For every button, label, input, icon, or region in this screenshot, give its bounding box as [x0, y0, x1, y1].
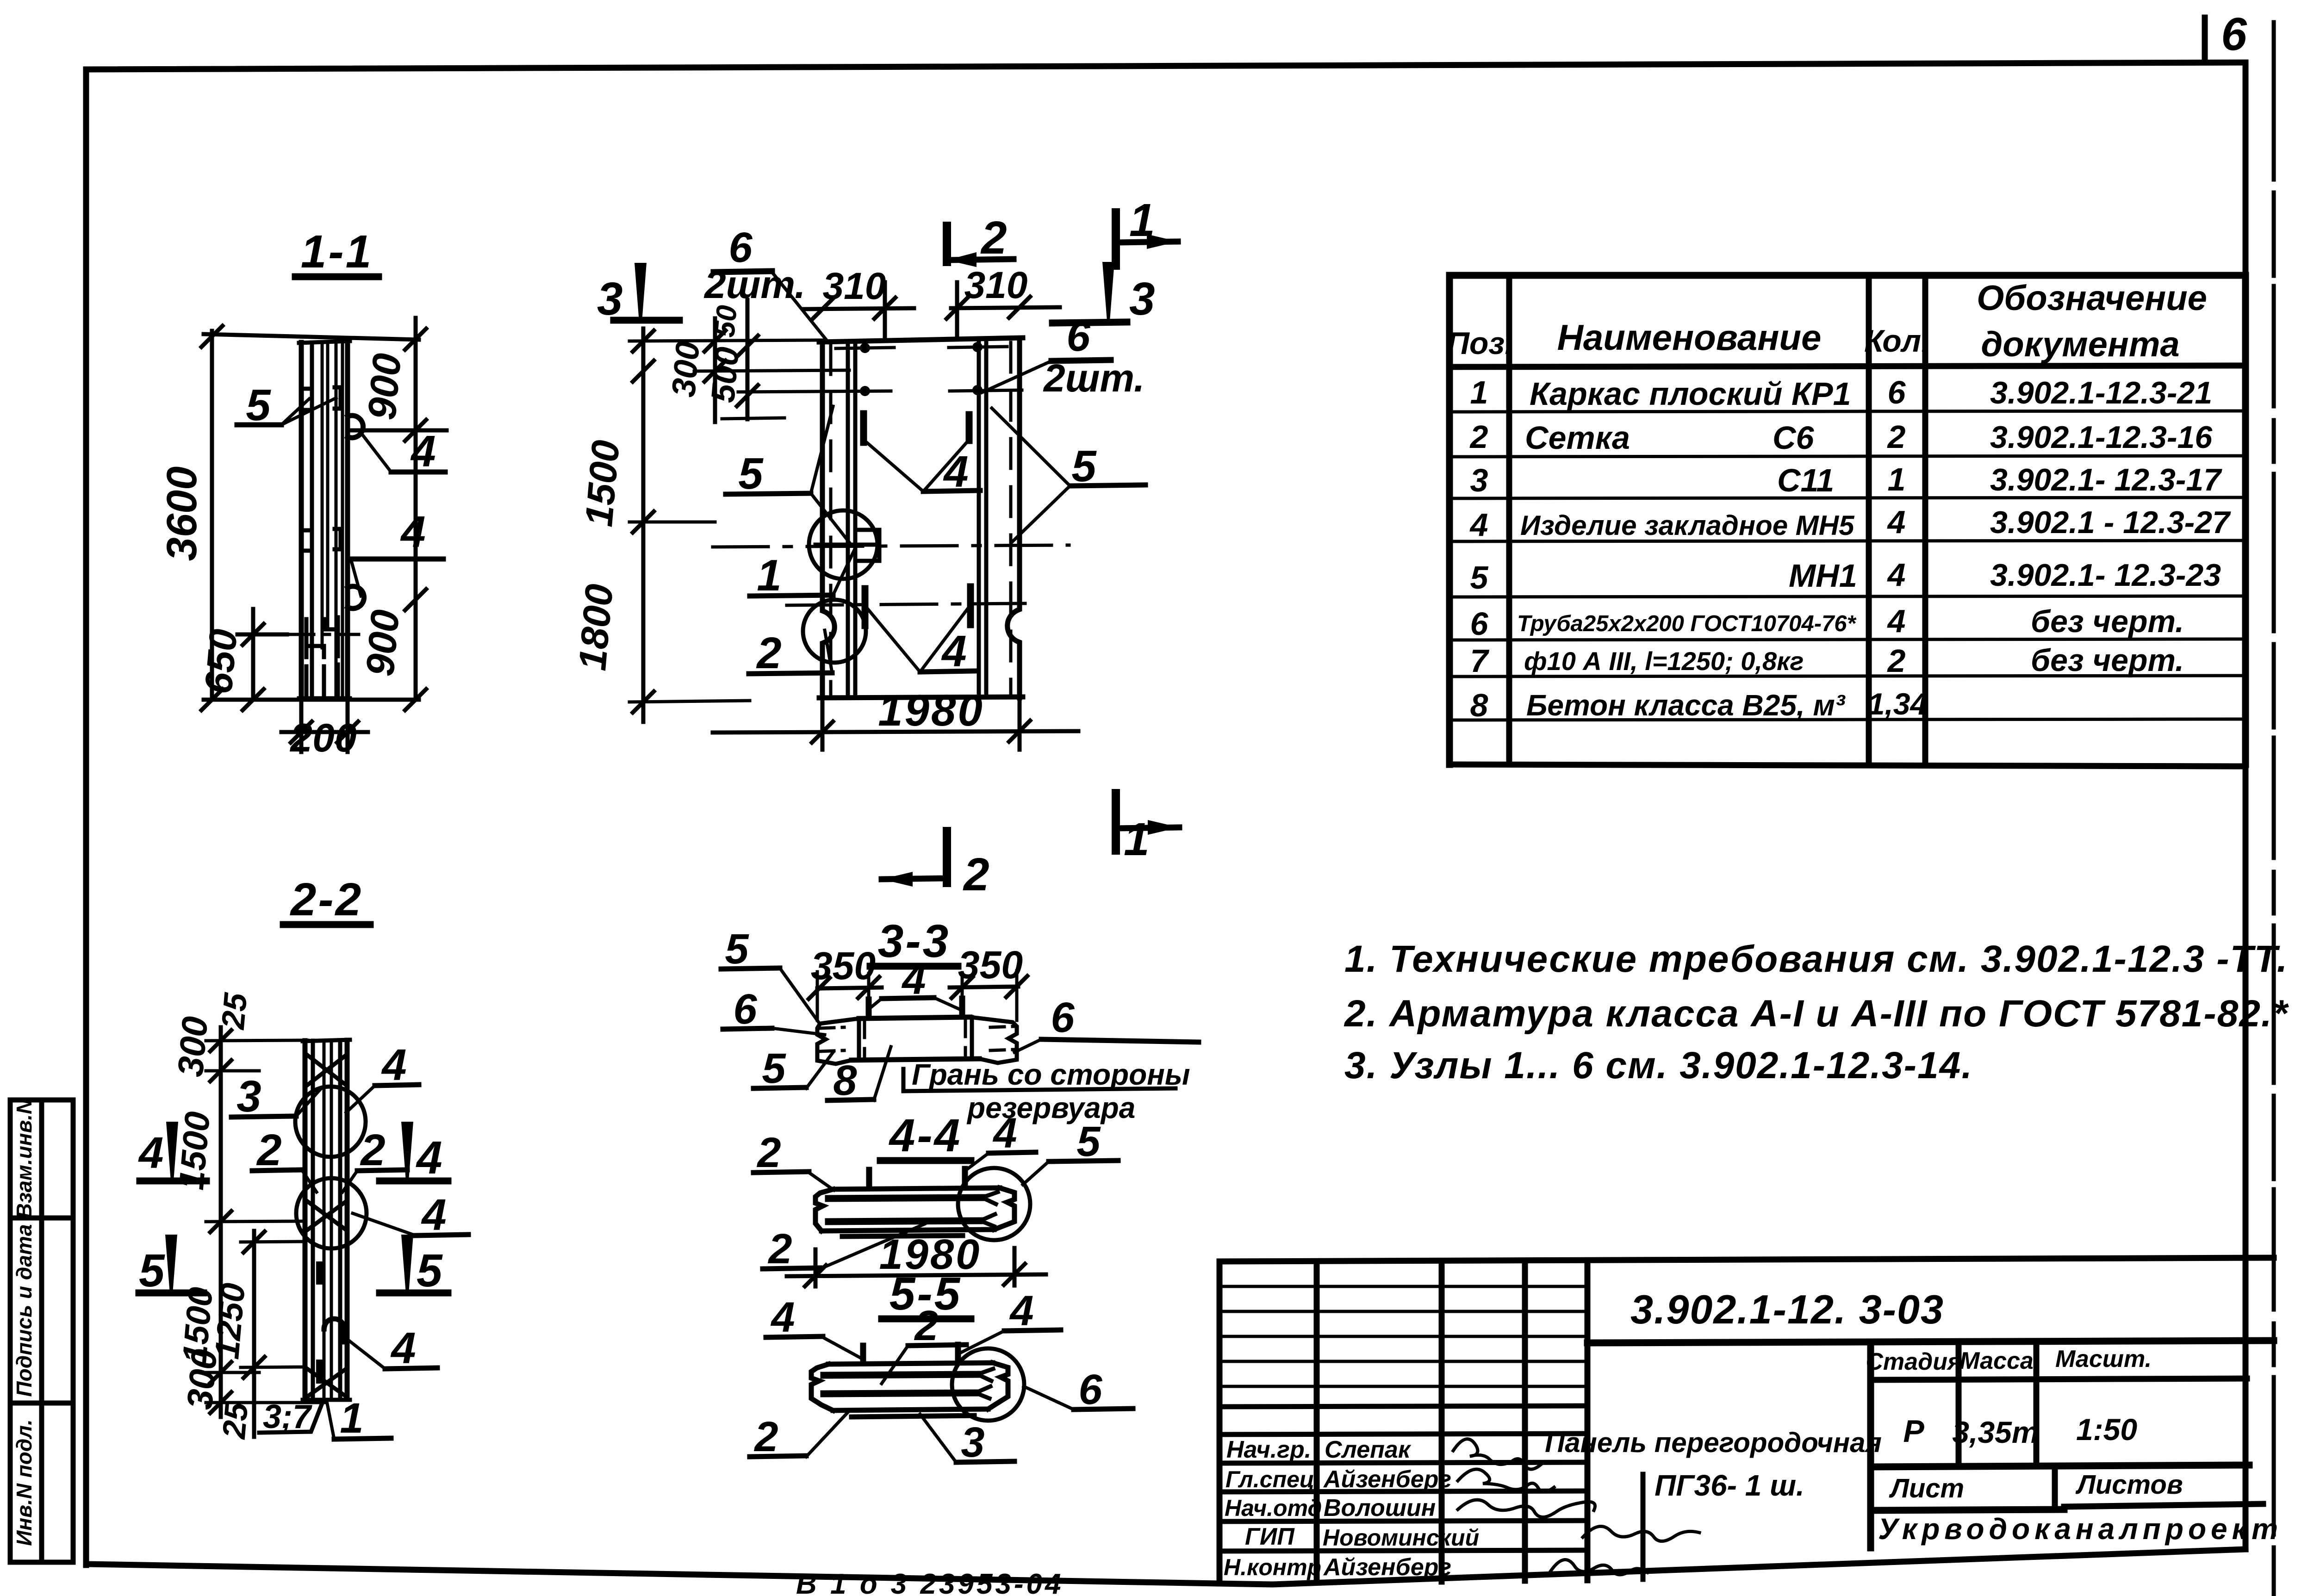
plan view dimension 1980 (bottom)	[713, 686, 1078, 750]
svg-text:Панель перегородочная: Панель перегородочная	[1545, 1427, 1882, 1458]
view 1-1 callout 5	[237, 380, 336, 430]
svg-text:документа: документа	[1981, 325, 2179, 364]
svg-text:4: 4	[421, 1190, 446, 1240]
view 3-3 callout 5 (bottom left)	[753, 1045, 833, 1092]
view 1-1 dimension 3600	[158, 324, 419, 712]
svg-text:4: 4	[416, 1132, 442, 1184]
svg-text:2: 2	[256, 1125, 281, 1175]
svg-text:Подпись и дата: Подпись и дата	[12, 1224, 36, 1397]
table row 2: Сетка С6	[1469, 419, 2213, 456]
svg-text:резервуара: резервуара	[966, 1091, 1135, 1124]
svg-text:1: 1	[757, 551, 781, 600]
title block: Стадия Масса Масшт headers and values	[1866, 1346, 2152, 1375]
view 2-2 node circle lower	[296, 1178, 367, 1248]
svg-text:2: 2	[756, 1129, 781, 1176]
svg-text:2. Арматура класса А-I: 2. Арматура класса А-I и А-III по ГОСТ 5…	[1344, 993, 2289, 1035]
svg-text:без черт.: без черт.	[2031, 604, 2184, 639]
view 4-4 label	[880, 1110, 971, 1161]
view 1-1 callout 4 (top)	[362, 427, 445, 476]
plan view section mark 1 (top right)	[1116, 194, 1178, 266]
svg-text:4: 4	[1009, 1287, 1033, 1335]
view 2-2 callout 2 (left)	[252, 1125, 317, 1192]
svg-text:5: 5	[725, 925, 749, 973]
svg-text:6: 6	[1078, 1366, 1102, 1413]
svg-text:Волошин: Волошин	[1324, 1495, 1436, 1521]
plan view section mark 1 (bottom right)	[1116, 793, 1179, 865]
plan view centrelines dash-dot	[713, 545, 1069, 605]
table row 5: МН1	[1470, 557, 2221, 596]
view 1-1 hooks (поз.4)	[348, 416, 364, 609]
view 4-4 node circle	[958, 1168, 1030, 1240]
svg-text:350: 350	[811, 944, 876, 987]
svg-text:5: 5	[1470, 559, 1489, 596]
svg-text:3. Узлы 1... 6 см. 3.: 3. Узлы 1... 6 см. 3.902.1-12.3-14.	[1344, 1044, 1973, 1087]
view 3-3 callout 5 (top left)	[721, 925, 818, 1022]
svg-text:1250: 1250	[207, 1281, 252, 1360]
view 5-5 callout 3 (bottom)	[920, 1414, 1014, 1466]
view 2-2 section mark 4 (right)	[379, 1122, 448, 1184]
svg-text:3.902.1- 12.3-17: 3.902.1- 12.3-17	[1990, 462, 2222, 497]
svg-text:900: 900	[360, 352, 410, 422]
svg-text:С6: С6	[1773, 420, 1815, 456]
svg-text:3: 3	[597, 273, 623, 325]
view 1-1 dimension 900 (top right)	[350, 318, 447, 712]
svg-text:1. Технические требования: 1. Технические требования см. 3.902.1-12…	[1344, 938, 2288, 980]
svg-text:1980: 1980	[878, 686, 984, 735]
view 3-3 callout 8	[827, 1047, 891, 1104]
view 5-5 callout 2 (bottom left)	[750, 1412, 848, 1460]
svg-text:4: 4	[770, 1294, 795, 1341]
view 3-3 dim 350 (right)	[950, 943, 1029, 1020]
svg-text:Бетон класса В25, м³: Бетон класса В25, м³	[1526, 689, 1846, 722]
plan view callout 4 (lower V)	[865, 604, 976, 676]
title block: handwritten signatures	[1453, 1439, 1699, 1575]
plan view node circle A	[809, 510, 877, 579]
svg-text:4: 4	[400, 507, 425, 557]
svg-text:2: 2	[1887, 643, 1906, 679]
svg-text:350: 350	[958, 943, 1023, 987]
svg-text:Масшт.: Масшт.	[2055, 1346, 2152, 1372]
table row 6: Труба 25х2х200	[1470, 603, 2184, 642]
svg-text:Н.контр: Н.контр	[1224, 1554, 1321, 1580]
view 1-1 dimension 200	[281, 703, 368, 760]
specification table grid	[1449, 275, 2246, 766]
view 3-3 callout 6 (right)	[1014, 994, 1199, 1052]
svg-text:310: 310	[823, 265, 886, 307]
view 2-2 section mark 5 (right)	[379, 1235, 448, 1297]
svg-text:6: 6	[1888, 374, 1906, 410]
svg-text:8: 8	[1470, 687, 1488, 723]
plan view callout 6 2шт (right)	[982, 313, 1145, 400]
view 1-1 bottom cross detail	[286, 617, 359, 694]
svg-text:5: 5	[762, 1045, 786, 1092]
svg-text:310: 310	[964, 264, 1028, 306]
view 2-2 dim 3;7 bottom	[259, 1398, 323, 1435]
svg-text:ГИП: ГИП	[1245, 1523, 1295, 1550]
view 2-2 cross braces	[307, 1055, 346, 1397]
svg-text:4: 4	[941, 627, 966, 676]
specification table header	[1447, 279, 2207, 364]
svg-text:Нач.гр.: Нач.гр.	[1226, 1436, 1311, 1463]
svg-text:Р: Р	[1903, 1414, 1924, 1449]
view 4-4 callout 2 (top left)	[753, 1129, 834, 1190]
svg-text:6: 6	[1051, 994, 1075, 1041]
svg-text:4: 4	[138, 1128, 163, 1178]
svg-text:4: 4	[1887, 504, 1906, 540]
svg-text:3600: 3600	[158, 466, 205, 561]
svg-text:С11: С11	[1777, 462, 1834, 498]
view 5-5 top ticks	[863, 1345, 958, 1363]
view 3-3 body	[817, 1017, 1017, 1064]
svg-text:8: 8	[833, 1057, 857, 1104]
view 3-3 label	[870, 915, 958, 967]
view 1-1 label	[295, 226, 379, 278]
svg-text:Стадия: Стадия	[1866, 1348, 1961, 1375]
svg-text:Новоминский: Новоминский	[1323, 1525, 1479, 1551]
svg-text:25: 25	[216, 1401, 255, 1441]
svg-text:ф10 А III, l=1250; 0,8кг: ф10 А III, l=1250; 0,8кг	[1524, 646, 1804, 676]
plan view section mark 2 (top)	[947, 212, 1014, 267]
svg-text:1:50: 1:50	[2076, 1412, 2137, 1447]
title block: Лист / Листов	[1889, 1470, 2183, 1503]
svg-text:1800: 1800	[570, 582, 621, 672]
svg-text:3: 3	[1129, 273, 1155, 325]
plan view left dim line 300/1500/1800	[570, 329, 819, 722]
plan view callout 4 (upper V)	[865, 439, 980, 497]
svg-text:5: 5	[139, 1245, 165, 1297]
svg-text:Каркас плоский КР1: Каркас плоский КР1	[1530, 376, 1851, 412]
svg-text:300: 300	[665, 340, 707, 399]
svg-text:4-4: 4-4	[889, 1110, 962, 1161]
view 5-5 callout 6 (right)	[1024, 1366, 1133, 1413]
svg-text:без черт.: без черт.	[2031, 643, 2184, 678]
svg-text:МН1: МН1	[1789, 558, 1857, 594]
svg-text:Наименование: Наименование	[1557, 317, 1822, 358]
svg-text:900: 900	[358, 608, 408, 678]
notes list	[1344, 938, 2289, 1087]
svg-text:650: 650	[196, 627, 245, 696]
svg-text:3,35т: 3,35т	[1952, 1415, 2039, 1449]
view 4-4 top ticks	[869, 1169, 965, 1188]
plan view inner detail at circle A	[815, 530, 879, 561]
view 5-5 callout 4 (left)	[766, 1294, 864, 1360]
view 5-5 callout 4 (right)	[960, 1287, 1061, 1353]
plan view channel ribs (right)	[979, 339, 986, 697]
view 4-4 body	[815, 1188, 1014, 1236]
table row 4: Изделие закладное МН5	[1469, 504, 2232, 543]
plan view tube cross lines	[738, 347, 1022, 392]
view 2-2 inner dim line 1250	[207, 1230, 305, 1437]
svg-text:3.902.1-12.3-16: 3.902.1-12.3-16	[1990, 420, 2213, 455]
view 2-2 callout 1 (bottom)	[327, 1395, 391, 1442]
plan view callout 6 2шт (top left)	[703, 224, 828, 342]
view 4-4 callout 5	[1023, 1118, 1118, 1185]
svg-text:4: 4	[381, 1040, 406, 1090]
plan view dimension 310 (top right)	[945, 264, 1060, 337]
svg-text:3: 3	[236, 1072, 261, 1121]
svg-text:2: 2	[980, 212, 1007, 264]
view 1-1 embed plates (поз.5)	[306, 387, 341, 551]
svg-text:4: 4	[1469, 507, 1488, 543]
view 2-2 section mark 4 (left)	[138, 1122, 206, 1181]
plan view node circle B	[803, 600, 866, 663]
view 2-2 callout 3	[231, 1072, 321, 1121]
table row 1: Каркас плоский КР1	[1470, 374, 2213, 412]
svg-text:Сетка: Сетка	[1525, 420, 1630, 456]
sheet number 6 (top right corner)	[2205, 8, 2247, 62]
svg-text:300: 300	[170, 1015, 216, 1078]
svg-text:Обозначение: Обозначение	[1977, 279, 2207, 318]
view 2-2 left dim line 300/1500/1500/300	[170, 991, 324, 1441]
plan view channel ribs (left)	[848, 341, 855, 697]
view 2-2 node circle upper	[295, 1087, 366, 1157]
svg-text:2: 2	[963, 849, 989, 900]
svg-text:ПГ36- 1 ш.: ПГ36- 1 ш.	[1655, 1469, 1804, 1502]
view 5-5 node circle	[952, 1348, 1024, 1421]
svg-text:4: 4	[1887, 557, 1906, 593]
title block grid	[1219, 1258, 2274, 1584]
view 5-5 label	[882, 1268, 971, 1320]
svg-text:6: 6	[2221, 8, 2247, 60]
svg-text:1: 1	[1124, 814, 1150, 865]
svg-text:5: 5	[738, 449, 764, 498]
view 1-1 dimension 650	[196, 609, 287, 712]
svg-text:50: 50	[709, 304, 743, 339]
view 4-4 callout 2 (bottom)	[763, 1224, 925, 1273]
plan view inner dim line 300 / 500 / 50	[665, 300, 849, 422]
plan view embed ticks (поз.4)	[864, 414, 970, 626]
svg-text:Айзенберг: Айзенберг	[1323, 1466, 1451, 1493]
table row 8: Бетон класса В25	[1470, 687, 1928, 723]
svg-text:Айзенберг: Айзенберг	[1323, 1554, 1451, 1581]
plan view dimension 310 (top left)	[804, 265, 914, 337]
plan view callout 1	[750, 546, 856, 600]
svg-text:4: 4	[410, 427, 435, 476]
view 3-3 top ticks (поз.4)	[869, 999, 962, 1017]
svg-text:3.902.1-12. 3-03: 3.902.1-12. 3-03	[1630, 1286, 1944, 1332]
svg-text:2: 2	[1887, 419, 1906, 455]
view 2-2 callout 4 (top right)	[346, 1040, 419, 1112]
plan view section mark 2 (bottom)	[882, 831, 989, 900]
svg-text:3.902.1 - 12.3-27: 3.902.1 - 12.3-27	[1990, 505, 2231, 540]
title block: name Панель перегородочная ПГ36-1ш	[1545, 1427, 1882, 1502]
svg-text:1: 1	[1470, 374, 1488, 410]
view 5-5 callout 2 (center)	[882, 1302, 966, 1384]
svg-text:2: 2	[914, 1302, 938, 1349]
table row 7: Ф10 АIII	[1470, 643, 2184, 679]
svg-text:Нач.отд: Нач.отд	[1225, 1495, 1322, 1521]
svg-text:Слепак: Слепак	[1325, 1436, 1412, 1463]
svg-text:2шт.: 2шт.	[703, 263, 805, 306]
svg-text:Кол.: Кол.	[1864, 323, 1930, 359]
plan view callout 2	[749, 628, 832, 678]
table row 3: С11	[1470, 461, 2223, 498]
svg-text:2шт.: 2шт.	[1043, 356, 1145, 400]
view 2-2 column body	[303, 1040, 350, 1400]
svg-text:Лист: Лист	[1889, 1473, 1964, 1503]
svg-text:6: 6	[1066, 313, 1090, 360]
svg-text:200: 200	[289, 716, 357, 760]
view 2-2 section mark 5 (left)	[139, 1235, 204, 1297]
svg-text:Взам.инв.N: Взам.инв.N	[12, 1099, 36, 1219]
svg-text:3: 3	[961, 1419, 984, 1466]
svg-text:2-2: 2-2	[290, 874, 363, 925]
plan view outline	[819, 338, 1023, 698]
svg-text:6: 6	[733, 986, 757, 1033]
svg-text:3.902.1- 12.3-23: 3.902.1- 12.3-23	[1990, 558, 2221, 593]
svg-text:1: 1	[1888, 461, 1906, 497]
svg-text:2: 2	[753, 1413, 778, 1460]
svg-text:6: 6	[1470, 606, 1489, 642]
view 2-2 callout 4 (lower right)	[345, 1323, 437, 1373]
title block: signature rows	[1224, 1436, 1479, 1581]
svg-text:7: 7	[1470, 643, 1490, 679]
svg-text:Укрводоканалпроект: Укрводоканалпроект	[1878, 1512, 2283, 1546]
plan view callout 5 (left)	[726, 406, 849, 542]
view 3-3 callout 6 (left)	[723, 986, 825, 1035]
svg-text:2: 2	[360, 1125, 385, 1175]
side column strip: Инв.N подл / Подпись и дата / Взам.инв.N	[10, 1099, 73, 1562]
view 3-3 dim 350 (left)	[807, 944, 882, 1020]
svg-text:2: 2	[767, 1225, 792, 1273]
svg-text:1-1: 1-1	[301, 226, 373, 278]
plan view hidden dashed lines	[831, 342, 1011, 694]
svg-text:Гл.спец: Гл.спец	[1225, 1466, 1314, 1492]
svg-text:2: 2	[1469, 419, 1488, 455]
svg-text:Масса: Масса	[1959, 1348, 2034, 1374]
view 2-2 hook detail	[324, 1319, 344, 1342]
svg-text:1: 1	[340, 1395, 363, 1442]
view 5-5 body	[811, 1363, 1008, 1417]
plan view tube dots (поз.6)	[860, 342, 983, 396]
scan edge line (right paper edge)	[2272, 22, 2276, 1596]
view 2-2 label	[283, 874, 370, 925]
view 1-1 callout 4 (bottom)	[351, 507, 443, 596]
svg-text:Грань со стороны: Грань со стороны	[912, 1058, 1190, 1091]
view 2-2 embed bars	[316, 1261, 323, 1384]
svg-text:1500: 1500	[577, 438, 628, 528]
svg-text:Труба25х2х200 ГОСТ10704-76*: Труба25х2х200 ГОСТ10704-76*	[1517, 611, 1857, 636]
svg-text:Поз.: Поз.	[1447, 326, 1513, 361]
plan view section mark 3 (right)	[1052, 262, 1155, 325]
view 4-4 dim 1980	[787, 1231, 1046, 1288]
svg-text:25: 25	[215, 991, 254, 1031]
svg-text:3: 3	[1470, 462, 1488, 498]
svg-text:4: 4	[390, 1323, 416, 1373]
svg-text:5: 5	[1076, 1118, 1101, 1165]
svg-text:4: 4	[1887, 603, 1906, 639]
svg-text:1,34: 1,34	[1868, 687, 1927, 721]
svg-text:В 1 о 3 23953-04: В 1 о 3 23953-04	[796, 1568, 1064, 1596]
svg-text:Листов: Листов	[2075, 1470, 2183, 1500]
svg-text:2: 2	[756, 628, 781, 678]
plan view section mark 3 (left)	[597, 263, 679, 325]
view 3-3 note Грань со стороны резервуара	[903, 1058, 1190, 1124]
svg-text:Изделие закладное МН5: Изделие закладное МН5	[1520, 510, 1855, 541]
svg-text:4: 4	[992, 1110, 1017, 1157]
svg-text:500: 500	[704, 346, 746, 404]
svg-text:3.902.1-12.3-21: 3.902.1-12.3-21	[1990, 375, 2212, 410]
view 4-4 callout 4	[966, 1110, 1036, 1170]
view 1-1 column body	[299, 341, 350, 698]
view 2-2 callout 2 (right)	[342, 1125, 407, 1192]
view 3-3 callout 4	[869, 956, 963, 1011]
svg-text:5: 5	[417, 1245, 443, 1297]
svg-text:1: 1	[1129, 194, 1155, 246]
view 2-2 callout 4 (mid right)	[353, 1190, 468, 1240]
svg-text:Инв.N подл.: Инв.N подл.	[12, 1419, 36, 1546]
plan view callout 5 (right)	[992, 408, 1145, 542]
